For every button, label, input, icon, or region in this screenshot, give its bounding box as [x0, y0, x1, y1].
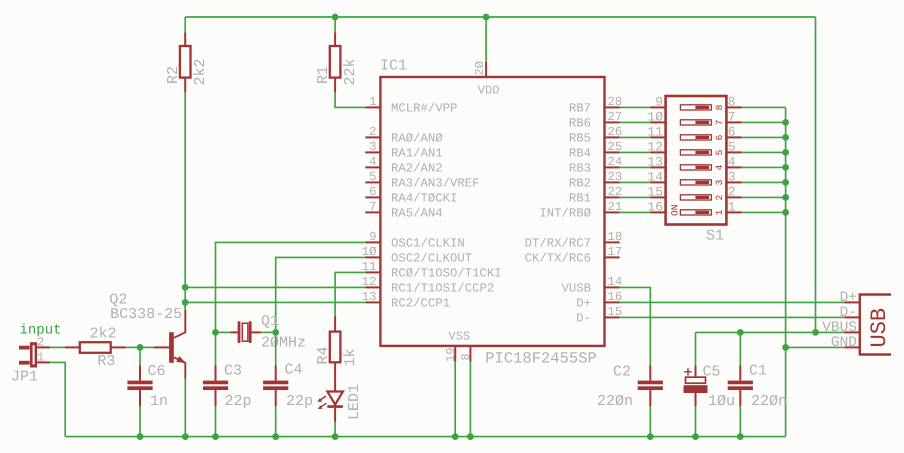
svg-text:6: 6: [714, 134, 725, 140]
IC1 pin 12 RC1/T1OSI/CCP2: [365, 286, 380, 288]
svg-text:8: 8: [459, 353, 473, 360]
svg-text:22k: 22k: [342, 58, 359, 85]
JP1 pin 1 lead: [37, 361, 50, 363]
wire S1 pin 4 to ground column: [742, 166, 786, 168]
node RC2 junction: [182, 299, 189, 306]
wire S1 common ground column: [785, 107, 787, 436]
svg-text:9: 9: [369, 230, 376, 244]
svg-text:C5: C5: [703, 363, 721, 380]
wire Q2 emitter to ground bus: [184, 379, 186, 437]
svg-text:R4: R4: [315, 346, 332, 364]
svg-text:BC338-25: BC338-25: [110, 306, 182, 323]
connector JP1 pad pin2: [19, 346, 30, 350]
svg-text:1: 1: [728, 200, 736, 215]
svg-text:C6: C6: [148, 363, 166, 380]
wire IC RB3 to S1: [620, 166, 651, 168]
svg-text:22Øn: 22Øn: [751, 393, 787, 410]
wire S1 pin 2 to ground column: [742, 196, 786, 198]
wire D+ IC pin16 to USB: [620, 301, 845, 303]
svg-text:RC1/T1OSI/CCP2: RC1/T1OSI/CCP2: [391, 282, 494, 296]
IC1 pin 18 DT/RX/RC7: [605, 241, 620, 243]
S1 switch element 6: [680, 180, 711, 185]
S1 pin 15 (left): [651, 196, 666, 198]
USB pin D-: [844, 316, 860, 318]
IC1 pin 9 OSC1/CLKIN: [365, 241, 380, 243]
wire IC RB1 to S1: [620, 196, 651, 198]
IC IC1 PIC18F2455SP body: [380, 77, 604, 346]
svg-text:8: 8: [728, 95, 736, 110]
IC1 pin 21 INT/RB0: [605, 211, 620, 213]
IC1 pin 11 RC0/T1OSO/T1CKI: [365, 271, 380, 273]
S1 switch element 5: [680, 165, 711, 170]
svg-text:VBUS: VBUS: [822, 320, 857, 336]
svg-text:1n: 1n: [150, 393, 168, 410]
IC1 pin 25 RB4: [605, 151, 620, 153]
C5 plus sign: [684, 371, 691, 373]
svg-text:OSC1/CLKIN: OSC1/CLKIN: [391, 237, 465, 251]
LED1 light arrows: [319, 396, 326, 401]
svg-text:MCLR#/VPP: MCLR#/VPP: [391, 102, 457, 116]
wire base node to Q2: [140, 346, 154, 348]
S1 pin 14 (left): [651, 181, 666, 183]
S1 switch element 4: [680, 150, 711, 155]
svg-text:5: 5: [369, 170, 376, 184]
svg-text:2k2: 2k2: [90, 326, 117, 343]
S1 switch element 1: [680, 105, 711, 110]
capacitor C6: [139, 347, 141, 365]
svg-text:2ØMHz: 2ØMHz: [261, 335, 306, 352]
wire IC RB0 to S1: [620, 211, 651, 213]
wire S1 pin 8 to ground column: [742, 106, 786, 108]
S1 pin 5 (right): [726, 151, 741, 153]
IC1 pin 14 VUSB: [605, 286, 620, 288]
switch S1 body: [666, 96, 727, 225]
IC1 pin 5 RA3/AN3/VREF: [365, 181, 380, 183]
IC1 pin 26 RB5: [605, 136, 620, 138]
svg-text:GND: GND: [831, 335, 857, 351]
IC1 pin 16 D+: [605, 301, 620, 303]
IC1 pin 8 VSS: [469, 346, 471, 362]
svg-text:4: 4: [714, 164, 725, 170]
svg-text:22p: 22p: [225, 393, 252, 410]
svg-text:R2: R2: [165, 66, 182, 84]
svg-text:INT/RBØ: INT/RBØ: [539, 207, 591, 221]
S1 pin 16 (left): [651, 211, 666, 213]
node S1-4 junction: [782, 164, 789, 171]
svg-text:15: 15: [647, 185, 663, 200]
svg-text:VDD: VDD: [478, 84, 500, 98]
wire S1 pin 6 to ground column: [742, 136, 786, 138]
svg-text:S1: S1: [706, 228, 724, 245]
svg-text:C2: C2: [613, 363, 631, 380]
svg-text:RA2/AN2: RA2/AN2: [391, 162, 443, 176]
node C5-bus: [692, 433, 699, 440]
svg-text:ON: ON: [670, 205, 681, 216]
IC1 pin 28 RB7: [605, 106, 620, 108]
USB pin D+: [844, 301, 860, 303]
svg-text:OSC2/CLKOUT: OSC2/CLKOUT: [391, 252, 472, 266]
svg-text:13: 13: [647, 155, 663, 170]
svg-text:RB3: RB3: [569, 162, 591, 176]
svg-text:1Ø: 1Ø: [647, 110, 663, 125]
wire VBUS horizontal: [696, 331, 845, 333]
S1 pin 10 (left): [651, 121, 666, 123]
wire R3 to Q2 base node: [126, 346, 140, 348]
svg-text:12: 12: [647, 140, 663, 155]
S1 switch element 7: [680, 195, 711, 200]
wire IC RB6 to S1: [620, 121, 651, 123]
wire IC RB4 to S1: [620, 151, 651, 153]
node VBUS-C1: [737, 329, 744, 336]
node C3-bus: [212, 433, 219, 440]
svg-text:4: 4: [369, 155, 376, 169]
svg-text:JP1: JP1: [11, 369, 38, 386]
wire OSC2 to crystal: [276, 257, 366, 332]
USB pin VBUS: [844, 331, 860, 333]
wire IC RB5 to S1: [620, 136, 651, 138]
IC1 pin 20 VDD: [485, 62, 487, 77]
svg-text:3: 3: [369, 140, 376, 154]
svg-text:USB: USB: [867, 308, 892, 348]
svg-text:14: 14: [647, 170, 663, 185]
svg-text:2: 2: [714, 194, 725, 200]
capacitor C5 electrolytic: [695, 332, 697, 366]
svg-text:8: 8: [714, 104, 725, 110]
resistor R1: [334, 17, 336, 32]
svg-text:2Ø: 2Ø: [473, 61, 487, 75]
svg-text:1: 1: [714, 209, 725, 215]
node VBUS-rail: [812, 329, 819, 336]
S1 pin 8 (right): [726, 106, 741, 108]
wire R2 bottom to Q2 collector column: [184, 92, 186, 310]
node RC1 junction: [182, 284, 189, 291]
connector JP1 pad pin1: [19, 361, 30, 365]
wire VDD rail to IC pin 20: [485, 17, 487, 62]
USB pin GND: [844, 346, 860, 348]
IC1 pin 7 RA5/AN4: [365, 211, 380, 213]
IC1 pin 4 RA2/AN2: [365, 166, 380, 168]
capacitor C2: [638, 381, 663, 385]
node S1-2 junction: [782, 194, 789, 201]
wire VBUS rail drop: [815, 17, 817, 332]
svg-text:RA4/TØCKI: RA4/TØCKI: [391, 192, 457, 206]
wire S1 pin 1 to ground column: [742, 211, 786, 213]
svg-text:D-: D-: [576, 312, 591, 326]
svg-text:6: 6: [728, 125, 736, 140]
svg-text:RAØ/ANØ: RAØ/ANØ: [391, 132, 443, 146]
svg-text:9: 9: [655, 95, 663, 110]
svg-text:7: 7: [369, 200, 376, 214]
svg-text:VSS: VSS: [449, 330, 471, 344]
node S1-5 junction: [782, 149, 789, 156]
wire R1 bottom to IC pin 1: [335, 92, 365, 107]
node S1-6 junction: [782, 134, 789, 141]
svg-text:2: 2: [37, 336, 44, 350]
svg-text:3: 3: [714, 179, 725, 185]
wire RC0 to R4: [335, 272, 365, 316]
svg-text:DT/RX/RC7: DT/RX/RC7: [525, 237, 591, 251]
svg-text:1k: 1k: [342, 348, 359, 366]
svg-text:RA5/AN4: RA5/AN4: [391, 207, 443, 221]
wire JP1 pin2 to R3: [50, 346, 64, 348]
IC1 pin 27 RB6: [605, 121, 620, 123]
wire S1 pin 7 to ground column: [742, 121, 786, 123]
IC1 pin 19 VSS: [454, 346, 456, 362]
IC1 pin 10 OSC2/CLKOUT: [365, 256, 380, 258]
svg-text:11: 11: [647, 125, 663, 140]
connector JP1 body: [30, 342, 37, 367]
resistor R4: [334, 317, 336, 332]
JP1 pin 2 lead: [37, 346, 50, 348]
svg-text:RB2: RB2: [569, 177, 591, 191]
node C1-bus: [737, 433, 744, 440]
svg-text:C1: C1: [749, 363, 767, 380]
svg-text:19: 19: [444, 348, 458, 362]
IC1 pin 22 RB1: [605, 196, 620, 198]
capacitor C4: [275, 332, 277, 365]
node C4-bus: [272, 433, 279, 440]
svg-text:1Øu: 1Øu: [708, 393, 735, 410]
svg-text:R1: R1: [315, 66, 332, 84]
node GND junction at USB: [782, 344, 789, 351]
svg-text:7: 7: [714, 120, 725, 126]
IC1 pin 1 MCLR#/VPP: [365, 106, 380, 108]
S1 pin 4 (right): [726, 166, 741, 168]
node rail-VDD junction: [483, 14, 490, 21]
svg-text:D-: D-: [840, 305, 857, 321]
S1 pin 12 (left): [651, 151, 666, 153]
wire OSC1 to crystal: [216, 242, 366, 332]
wire Q2 collector to RC2 node: [184, 302, 186, 310]
svg-text:3: 3: [728, 170, 736, 185]
capacitor C3: [215, 332, 217, 365]
svg-text:1: 1: [37, 351, 44, 365]
svg-text:Q1: Q1: [261, 313, 279, 330]
wire ground bus: [65, 436, 785, 438]
node base junction: [137, 344, 144, 351]
svg-text:R3: R3: [97, 353, 115, 370]
wire GND to USB: [786, 346, 845, 348]
node rail-R1 junction: [332, 14, 339, 21]
S1 pin 9 (left): [651, 106, 666, 108]
S1 pin 3 (right): [726, 181, 741, 183]
S1 switch element 3: [680, 135, 711, 140]
crystal Q1 20MHz: [216, 331, 231, 333]
LED LED1: [334, 377, 336, 391]
S1 pin 2 (right): [726, 196, 741, 198]
svg-text:IC1: IC1: [380, 57, 407, 74]
svg-text:18: 18: [608, 230, 623, 244]
wire VUSB pin14 to C2: [620, 287, 651, 365]
svg-text:D+: D+: [840, 290, 857, 306]
S1 switch element 8: [680, 210, 711, 215]
wire VSS pin19 to ground bus: [454, 362, 456, 437]
connector X1 USB body: [860, 295, 891, 355]
svg-text:RC2/CCP1: RC2/CCP1: [391, 297, 450, 311]
wire LED1 cathode to ground bus: [334, 422, 336, 437]
transistor Q2 BC338-25: [154, 346, 169, 348]
S1 pin 13 (left): [651, 166, 666, 168]
wire RC1 to collector column: [185, 286, 365, 288]
svg-text:RA1/AN1: RA1/AN1: [391, 147, 443, 161]
IC1 pin 17 CK/TX/RC6: [605, 256, 620, 258]
S1 pin 1 (right): [726, 211, 741, 213]
svg-text:C4: C4: [285, 362, 303, 379]
node crystal left junction: [212, 329, 219, 336]
IC1 pin 6 RA4/T0CKI: [365, 196, 380, 198]
svg-text:RB4: RB4: [569, 147, 591, 161]
svg-text:RB7: RB7: [569, 102, 591, 116]
svg-text:22Øn: 22Øn: [597, 393, 633, 410]
IC1 pin 24 RB3: [605, 166, 620, 168]
svg-text:RB5: RB5: [569, 132, 591, 146]
node VSS8-bus: [467, 433, 474, 440]
wire VSS pin8 to ground bus: [469, 362, 471, 437]
capacitor C1: [739, 332, 741, 365]
svg-text:16: 16: [647, 200, 663, 215]
svg-text:1: 1: [369, 95, 376, 109]
node emitter-bus: [182, 433, 189, 440]
wire IC RB2 to S1: [620, 181, 651, 183]
S1 pin 6 (right): [726, 136, 741, 138]
svg-text:PIC18F2455SP: PIC18F2455SP: [485, 350, 597, 368]
IC1 pin 2 RA0/AN0: [365, 136, 380, 138]
IC1 pin 3 RA1/AN1: [365, 151, 380, 153]
resistor R2: [184, 17, 186, 32]
svg-text:2k2: 2k2: [192, 58, 209, 85]
svg-text:RB6: RB6: [569, 117, 591, 131]
S1 pin 11 (left): [651, 136, 666, 138]
svg-text:17: 17: [608, 245, 623, 259]
wire VDD top rail: [185, 16, 815, 18]
IC1 pin 15 D-: [605, 316, 620, 318]
svg-text:2: 2: [369, 125, 376, 139]
svg-text:LED1: LED1: [346, 384, 363, 420]
wire IC RB7 to S1: [620, 106, 651, 108]
resistor R3: [65, 346, 80, 348]
svg-text:RCØ/T1OSO/T1CKI: RCØ/T1OSO/T1CKI: [391, 267, 502, 281]
wire D- IC pin15 to USB: [620, 316, 845, 318]
svg-text:RB1: RB1: [569, 192, 591, 206]
svg-text:22p: 22p: [286, 393, 313, 410]
svg-text:D+: D+: [576, 297, 591, 311]
wire JP1 pin1 to ground bus: [50, 362, 65, 436]
svg-text:5: 5: [714, 149, 725, 155]
IC1 pin 13 RC2/CCP1: [365, 301, 380, 303]
svg-text:2: 2: [728, 185, 736, 200]
S1 pin 7 (right): [726, 121, 741, 123]
svg-text:VUSB: VUSB: [561, 282, 591, 296]
wire S1 pin 5 to ground column: [742, 151, 786, 153]
node C2-bus: [647, 433, 654, 440]
svg-text:CK/TX/RC6: CK/TX/RC6: [525, 252, 591, 266]
IC1 pin 23 RB2: [605, 181, 620, 183]
svg-text:5: 5: [728, 140, 736, 155]
S1 switch element 2: [680, 120, 711, 125]
svg-text:6: 6: [369, 185, 376, 199]
svg-text:RA3/AN3/VREF: RA3/AN3/VREF: [391, 177, 480, 191]
node S1-7 junction: [782, 119, 789, 126]
node VSS19-bus: [452, 433, 459, 440]
node crystal right junction: [272, 329, 279, 336]
node LED1-bus: [332, 433, 339, 440]
node S1-1 junction: [782, 209, 789, 216]
wire RC2 to collector column: [185, 301, 365, 303]
svg-text:C3: C3: [224, 363, 242, 380]
node C6-bus: [137, 433, 144, 440]
svg-text:7: 7: [728, 110, 736, 125]
svg-text:4: 4: [728, 155, 736, 170]
node S1-3 junction: [782, 179, 789, 186]
wire S1 pin 3 to ground column: [742, 181, 786, 183]
